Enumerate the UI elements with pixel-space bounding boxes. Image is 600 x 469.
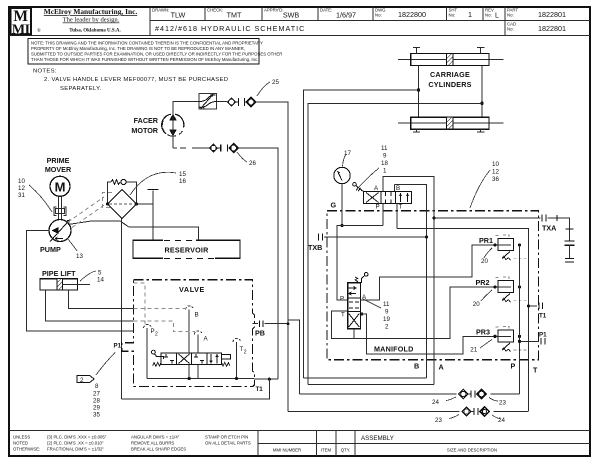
svg-text:16: 16 — [179, 178, 186, 185]
label 23 (row1) with leader — [489, 398, 506, 407]
flow control valve FC1 — [199, 94, 217, 110]
svg-text:MOVER: MOVER — [45, 165, 72, 174]
svg-text:T: T — [533, 366, 538, 375]
label PIPE LIFT — [42, 269, 76, 278]
svg-text:P: P — [340, 296, 344, 303]
notes text — [33, 69, 228, 93]
valve V3 body — [348, 283, 361, 329]
junction filter left — [106, 202, 109, 205]
svg-text:PR2: PR2 — [476, 278, 490, 287]
junction T2 bottom — [235, 377, 238, 380]
wire V2-B over to TXB riser — [394, 184, 426, 377]
svg-text:VALVE: VALVE — [179, 285, 205, 294]
wire coupling 26 to valve T1 (down) — [238, 148, 278, 379]
junction PR1 in — [493, 243, 496, 246]
wire B net bottom link — [304, 377, 427, 379]
valve V2 body — [364, 192, 412, 204]
svg-text:14: 14 — [97, 277, 104, 284]
svg-text:T1: T1 — [539, 313, 547, 320]
svg-text:PUMP: PUMP — [40, 245, 61, 254]
labels 11 9 18 1 with leader — [358, 145, 388, 188]
label 21 with leader — [470, 340, 492, 354]
pump P — [49, 220, 71, 242]
carriage cylinder top rod — [398, 59, 504, 61]
junction TXB on B riser — [425, 235, 428, 238]
valve V3 lever — [355, 273, 368, 283]
svg-text:2: 2 — [80, 377, 84, 384]
svg-text:PRIME: PRIME — [47, 156, 70, 165]
manifold dash-dot enclosure — [327, 211, 539, 360]
wire filter outlet down (P1 pressure line) — [121, 219, 123, 399]
svg-text:TLW: TLW — [171, 11, 186, 20]
reservoir T1 — [133, 240, 240, 258]
svg-text:2: 2 — [155, 332, 158, 338]
coupling pair 26 — [210, 144, 238, 153]
label T (V3) — [341, 312, 345, 319]
svg-text:18: 18 — [381, 160, 388, 167]
label T1 (manifold) — [539, 313, 547, 320]
svg-text:2: 2 — [385, 324, 389, 331]
grey dashed hose B to pipe lift — [134, 308, 187, 310]
wire carriage left port to valve B (horizontal) — [304, 90, 419, 378]
facer motor M1 — [162, 113, 184, 136]
label P1 (manifold) — [539, 332, 547, 339]
label PB — [255, 329, 265, 338]
label VALVE — [179, 285, 205, 294]
filter bypass relief (spring + check) — [108, 179, 137, 204]
V2 port B stub — [393, 184, 395, 191]
wire T1 port stub — [529, 303, 543, 310]
port T2 symbol — [233, 338, 247, 355]
svg-text:T: T — [399, 204, 403, 211]
svg-text:QTY.: QTY. — [341, 448, 350, 453]
svg-text:MOTOR: MOTOR — [131, 126, 158, 135]
junction A riser / TXA wire — [432, 216, 435, 219]
svg-text:A: A — [439, 363, 444, 372]
svg-text:19: 19 — [383, 316, 390, 323]
coupling pair row1 (24/23) — [459, 389, 487, 398]
label TXB — [308, 243, 322, 252]
svg-text:P1: P1 — [539, 332, 547, 339]
cell1 blocked ports — [164, 354, 174, 364]
label CARRIAGE CYLINDERS — [428, 70, 471, 89]
V2 port P stub — [382, 204, 384, 226]
wire V3-A to PR1 — [360, 245, 495, 300]
svg-text:NOTES:: NOTES: — [33, 69, 57, 75]
junction left cylinder port — [417, 88, 420, 91]
wire TXB stub — [319, 234, 427, 241]
svg-text:23: 23 — [499, 400, 506, 407]
svg-text:P1: P1 — [114, 343, 122, 350]
svg-text:PIPE LIFT: PIPE LIFT — [42, 269, 76, 278]
company name block — [37, 7, 137, 34]
svg-text:28: 28 — [93, 398, 100, 405]
svg-text:®: ® — [37, 28, 41, 34]
carriage bottom-right port T — [477, 129, 484, 132]
port A riser — [197, 335, 199, 379]
svg-text:P: P — [376, 204, 380, 211]
svg-text:10: 10 — [18, 178, 25, 185]
label PRIME MOVER — [45, 156, 72, 174]
wire pump suction left loop — [27, 231, 134, 332]
svg-text:No:: No: — [449, 13, 456, 18]
label TXA — [542, 224, 556, 233]
svg-text:ANGULAR DIM'S = ±1/4°: ANGULAR DIM'S = ±1/4° — [131, 435, 180, 440]
svg-text:No:: No: — [375, 13, 382, 18]
label 24 (row1) with leader — [432, 397, 456, 406]
junction P1 port tap — [518, 340, 521, 343]
valve bottom gallery wire — [147, 378, 254, 380]
pressure gauge 17 — [334, 167, 350, 183]
label 23 (row2) with leader — [435, 415, 459, 425]
svg-text:17: 17 — [344, 150, 351, 157]
wire pump outlet to reservoir — [68, 221, 199, 240]
valve V2 lever — [353, 183, 364, 192]
label T (V2) — [399, 204, 403, 211]
svg-text:36: 36 — [492, 176, 499, 183]
labels 15 16 with leader — [130, 171, 186, 195]
port B symbol — [186, 306, 199, 319]
svg-text:20: 20 — [481, 258, 488, 265]
svg-text:13: 13 — [76, 253, 83, 260]
wire row1 riser to PB net — [288, 320, 300, 394]
svg-text:FACER: FACER — [134, 116, 159, 125]
junction filter right — [135, 202, 138, 205]
svg-text:BREAK ALL SHARP EDGES: BREAK ALL SHARP EDGES — [131, 447, 186, 452]
svg-text:1: 1 — [383, 168, 387, 175]
junction B bottom — [188, 365, 191, 381]
wire facer motor top to flow control — [173, 102, 199, 137]
svg-text:M: M — [55, 180, 66, 195]
svg-text:ITEM: ITEM — [321, 448, 332, 453]
coupling pair row2 (23/24) — [462, 407, 490, 416]
svg-text:T: T — [341, 312, 345, 319]
junction V3 side port — [360, 312, 363, 315]
svg-text:2: 2 — [244, 350, 247, 356]
label PR2 — [476, 278, 490, 287]
wire row1 coupling line (P to 23) — [300, 393, 520, 395]
proprietary note box — [28, 39, 282, 65]
svg-text:1822800: 1822800 — [398, 10, 426, 19]
svg-text:MANIFOLD: MANIFOLD — [374, 345, 414, 354]
svg-text:B: B — [414, 362, 419, 371]
title block grid — [9, 7, 590, 35]
svg-text:SEPARATELY.: SEPARATELY. — [60, 86, 102, 92]
label A (V3) — [362, 294, 367, 301]
grey dashed box at filter left — [103, 193, 113, 208]
svg-text:20: 20 — [473, 301, 480, 308]
valve V1 handle end — [222, 354, 231, 359]
case drain dashed lines pump to filter — [68, 197, 107, 228]
svg-text:PROPERTY OF McElroy Manufactur: PROPERTY OF McElroy Manufacturing, Inc. … — [31, 46, 245, 51]
wire PR chain riser (P net) — [519, 245, 521, 394]
grey dashed hose A to pipe lift — [134, 321, 196, 332]
svg-text:15: 15 — [179, 171, 186, 178]
shaft coupling — [54, 207, 66, 216]
junction right cylinder port — [480, 102, 483, 105]
port P2 symbol — [144, 324, 159, 337]
valve V1 lever — [152, 350, 164, 359]
carriage cylinder top body — [411, 54, 489, 66]
labels 10 12 36 with leader — [470, 161, 499, 208]
svg-text:SIZE AND DESCRIPTION: SIZE AND DESCRIPTION — [447, 448, 497, 453]
svg-text:24: 24 — [498, 417, 505, 424]
svg-text:SWB: SWB — [283, 11, 300, 20]
label 24 (row2) with leader — [492, 415, 505, 424]
wire T net from V2-T to T1 riser — [397, 228, 529, 411]
svg-text:1: 1 — [468, 10, 472, 19]
label A (V2) — [374, 185, 379, 192]
port A symbol — [194, 331, 208, 343]
label 26 with leader — [237, 152, 256, 167]
MMI logo — [11, 8, 32, 38]
cell3 blocked ports — [194, 354, 204, 364]
svg-text:No:: No: — [507, 27, 514, 32]
port T2 riser — [236, 342, 238, 379]
label PR3 — [476, 328, 490, 337]
wire P1 port stub — [520, 338, 545, 345]
wire gauge stem — [341, 184, 343, 226]
svg-text:1822801: 1822801 — [538, 10, 566, 19]
carriage bottom-left port T — [413, 129, 420, 132]
svg-text:DRAWN:: DRAWN: — [152, 8, 169, 13]
svg-text:5: 5 — [98, 270, 102, 277]
carriage cylinder bottom rod — [398, 122, 504, 124]
svg-text:ON ALL DETAIL PARTS: ON ALL DETAIL PARTS — [205, 441, 251, 446]
filter F1 — [108, 190, 137, 219]
cell4 parallel arrows — [211, 354, 217, 364]
svg-text:B: B — [396, 185, 400, 192]
wire A net bottom link — [308, 383, 434, 385]
label 17 with leader — [343, 150, 352, 167]
svg-text:G: G — [331, 201, 337, 210]
svg-text:(3) PLC. DIM'S .XXX = ±0.005: (3) PLC. DIM'S .XXX = ±0.005" — [47, 435, 107, 440]
label FACER MOTOR — [131, 116, 158, 135]
svg-text:9: 9 — [383, 153, 387, 160]
label 20 (PR1) with leader — [481, 248, 492, 265]
carriage cylinder bottom body — [411, 117, 489, 129]
svg-text:TXB: TXB — [308, 243, 322, 252]
V2 port A stub — [382, 187, 384, 192]
wire pipe lift left port to valve A (dashed inside valve) — [45, 290, 133, 321]
title block texts — [152, 8, 566, 34]
svg-text:#412/#618 HYDRAULIC SCHEMATIC: #412/#618 HYDRAULIC SCHEMATIC — [155, 24, 305, 33]
label PR1 — [479, 236, 493, 245]
wire V3 bottom stub — [353, 329, 355, 339]
junction T1 port — [527, 304, 530, 307]
svg-text:10: 10 — [492, 161, 499, 168]
motor shaft — [58, 196, 61, 220]
svg-text:OTHERWISE:: OTHERWISE: — [13, 447, 40, 452]
svg-text:PR1: PR1 — [479, 236, 493, 245]
svg-text:29: 29 — [93, 405, 100, 412]
svg-text:MMI NUMBER: MMI NUMBER — [273, 448, 301, 453]
svg-text:21: 21 — [470, 347, 477, 354]
wire row2 coupling line (T to 24) — [288, 411, 528, 413]
junction gauge on G wire — [340, 224, 343, 227]
label 20 (PR2) with leader — [473, 290, 492, 308]
valve enclosure dash-dot box — [122, 280, 255, 387]
wire coupling 25 to PB net (down right side) — [256, 102, 288, 412]
svg-text:27: 27 — [93, 391, 100, 398]
cell2 crossed X — [179, 354, 190, 364]
svg-text:31: 31 — [18, 192, 25, 199]
labels 11 9 19 2 with leader — [363, 299, 390, 331]
svg-text:APPRV'D:: APPRV'D: — [264, 8, 284, 13]
svg-text:1/6/97: 1/6/97 — [336, 11, 356, 20]
valve V1 right spring — [222, 363, 230, 367]
label P1 — [114, 343, 122, 350]
svg-text:UNLESS: UNLESS — [13, 435, 30, 440]
wire valve T1 out — [254, 378, 278, 380]
svg-text:T1: T1 — [256, 386, 264, 393]
wire V3 bottom to manifold gallery — [362, 314, 496, 354]
svg-text:8: 8 — [95, 383, 99, 390]
svg-text:35: 35 — [93, 412, 100, 419]
label PUMP — [40, 245, 61, 254]
svg-text:PR3: PR3 — [476, 328, 490, 337]
wire valve PB out with coupling — [253, 320, 289, 327]
coupling pair 25 — [227, 98, 255, 107]
svg-text:1822801: 1822801 — [538, 24, 566, 33]
manifold bottom port labels — [414, 362, 538, 375]
junction PR2 in — [493, 285, 496, 288]
labels 5 14 with leader — [80, 270, 104, 284]
wire facer motor bottom (dash) to coupling 26 — [173, 136, 209, 148]
svg-text:L: L — [495, 11, 499, 20]
svg-text:McElroy Manufacturing, Inc.: McElroy Manufacturing, Inc. — [44, 7, 138, 16]
svg-text:24: 24 — [432, 399, 439, 406]
junction PR3 out — [518, 335, 521, 338]
svg-text:CYLINDERS: CYLINDERS — [428, 80, 471, 89]
svg-text:No:: No: — [507, 13, 514, 18]
main directional valve V1 body — [161, 353, 222, 365]
junction PR3 in — [493, 335, 496, 338]
wire G net — [337, 226, 383, 301]
svg-text:B: B — [195, 312, 199, 319]
note flag 2 and item labels 8 27 28 29 35 — [77, 353, 115, 419]
svg-text:ASSEMBLY: ASSEMBLY — [361, 435, 394, 442]
junction T1/P1 loop — [268, 378, 271, 381]
wire pipe lift right port to valve B (dashed inside valve) — [68, 290, 133, 309]
svg-text:CHECK:: CHECK: — [207, 8, 223, 13]
svg-text:(2) PLC. DIM'S .XX = ±0.010": (2) PLC. DIM'S .XX = ±0.010" — [47, 441, 104, 446]
label T1 (valve) — [256, 386, 264, 393]
wire filter to reservoir breather line — [137, 190, 159, 241]
grey dashed pilot at P2 — [134, 283, 146, 324]
svg-text:SUBMITTED TO OUTSIDE PARTIES F: SUBMITTED TO OUTSIDE PARTIES FOR EXAMINA… — [31, 52, 282, 57]
wire cylinder left side vertical — [418, 66, 420, 118]
svg-text:NOTED: NOTED — [13, 441, 28, 446]
wire P1 bottom loop — [122, 379, 270, 399]
wire carriage right port to valve A (horizontal) — [308, 103, 482, 384]
labels 10 12 31 with leader — [18, 178, 52, 212]
svg-text:NOTE: THIS DRAWING AND THE IN: NOTE: THIS DRAWING AND THE INFORMATION C… — [31, 41, 263, 46]
svg-text:THAN THOSE FOR WHICH IT WAS FU: THAN THOSE FOR WHICH IT WAS FURNISHED WI… — [31, 57, 258, 62]
label G — [331, 201, 337, 210]
svg-text:23: 23 — [435, 417, 442, 424]
svg-text:26: 26 — [249, 160, 256, 167]
svg-text:9: 9 — [385, 309, 389, 316]
wire V3-T gallery — [331, 287, 495, 339]
svg-text:P: P — [511, 362, 516, 371]
svg-text:11: 11 — [381, 145, 388, 152]
label P (V2) — [376, 204, 380, 211]
svg-text:11: 11 — [383, 301, 390, 308]
svg-text:DATE:: DATE: — [320, 8, 332, 13]
label B (V2) — [396, 185, 400, 192]
pipe lift cylinder — [40, 279, 90, 290]
svg-text:2. VALVE HANDLE LEVER MEF00077: 2. VALVE HANDLE LEVER MEF00077, MUST BE … — [44, 77, 228, 83]
junction PB riser — [287, 322, 290, 325]
svg-text:PB: PB — [255, 329, 265, 338]
prime mover M — [50, 176, 70, 196]
port B riser — [188, 310, 190, 354]
svg-text:REMOVE ALL BURRS: REMOVE ALL BURRS — [131, 441, 174, 446]
wire V2-A over to TXA riser — [383, 176, 434, 384]
svg-text:STAMP OR ETCH P/N: STAMP OR ETCH P/N — [205, 435, 248, 440]
bottom tolerance / assembly table — [9, 431, 590, 457]
svg-text:12: 12 — [18, 185, 25, 192]
port P2 riser — [146, 328, 148, 379]
svg-text:No:: No: — [485, 13, 492, 18]
svg-text:MI: MI — [12, 23, 30, 38]
label MANIFOLD — [374, 345, 414, 354]
svg-text:TXA: TXA — [542, 224, 556, 233]
junction PR1 out — [518, 243, 521, 246]
wire cylinder right side vertical — [481, 66, 483, 118]
svg-text:CARRIAGE: CARRIAGE — [430, 70, 470, 79]
svg-text:TMT: TMT — [227, 11, 242, 20]
svg-text:25: 25 — [272, 79, 279, 86]
junction PR2 out — [518, 285, 521, 288]
carriage top-right port T — [477, 48, 484, 54]
wire flow control to coupling 25 — [217, 101, 228, 103]
svg-text:RESERVOIR: RESERVOIR — [164, 246, 209, 255]
carriage top-left port T — [413, 48, 420, 54]
svg-text:FRACTIONAL DIM'S = ±1/32": FRACTIONAL DIM'S = ±1/32" — [47, 447, 104, 452]
label 25 with leader — [257, 79, 279, 96]
svg-text:Tulsa, Oklahoma U.S.A.: Tulsa, Oklahoma U.S.A. — [69, 29, 121, 34]
label 13 with leader — [68, 239, 83, 260]
wire TXA — [434, 215, 575, 262]
label P (V3) — [340, 296, 344, 303]
svg-text:The leader by design.: The leader by design. — [63, 17, 120, 24]
V2 port T stub — [396, 204, 398, 229]
svg-text:12: 12 — [492, 169, 499, 176]
valve V1 left spring — [153, 363, 161, 367]
